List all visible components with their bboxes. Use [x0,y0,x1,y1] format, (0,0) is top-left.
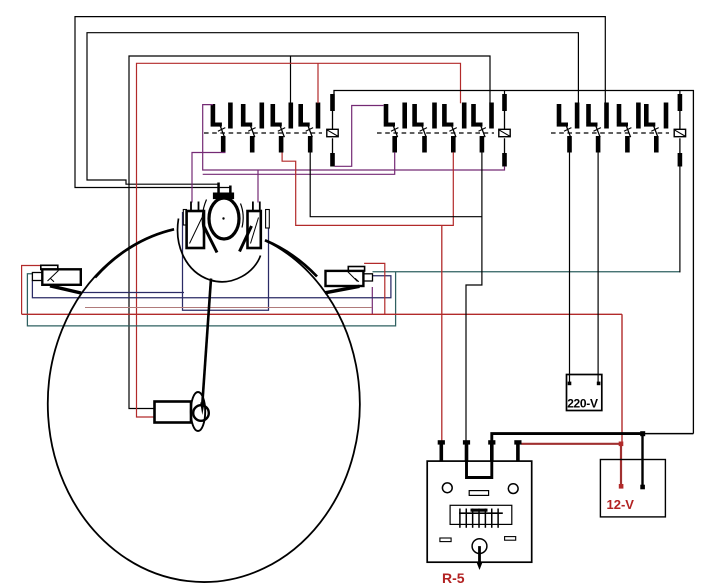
R-5 small window [469,491,488,496]
R-5 right eyelet [508,484,518,494]
pendulum rod [202,279,211,405]
wire navy left-plug to right-lever bottom bus [32,276,391,298]
wire red bus to 12-V [621,314,623,444]
right lever internal diagonal [348,272,358,282]
wire purple S1-L1-top long run to K2-bottom [203,105,505,170]
switch S3 pole 2 moving contact (lower bar) [596,136,601,153]
svg-text:12-V: 12-V [607,497,635,512]
switch S2 pole 4 moving contact (lower bar) [480,136,485,153]
switch S2 pole 2 fixed contact (I-bar) [432,103,437,129]
switch S1 pole 2 fixed contact (I-bar) [260,103,265,129]
motor housing bottom arc [178,219,261,282]
left lever pointer stroke [50,286,81,293]
relay/fuse K2 upper terminal bar [502,94,507,111]
wire black branch to bank S1 pole3-I [290,56,292,103]
switch S3 pole 3 actuator arm [626,125,631,137]
wire red into 12-V box [620,444,622,487]
switch S1 pole 1 moving contact (lower bar) [221,136,226,153]
R-5 left slot [440,538,451,542]
left brush holder diagonal [190,218,203,244]
switch S1 pole 2 fixed contact (L-bar) [241,104,246,123]
relay/fuse K1 lower lead [332,138,334,153]
switch bank S3 [551,94,686,167]
right brush pin A [252,202,254,212]
svg-text:220-V: 220-V [567,397,598,411]
wire purple S1-low1 to left brush pin [192,153,226,203]
motor cap pin 1 [217,183,220,193]
left lever internal diagonal [48,271,59,282]
wire black S3-low2 to 220-V [597,153,599,384]
wire black K3-bottom to teal line [679,167,681,273]
wire black S2-low4 to R-5 terminal 2 [466,153,482,441]
R-5 terminal 3 [490,444,494,461]
wire relay-top bus [334,91,693,434]
knob circle [193,405,209,421]
left lever top plate [41,265,58,269]
left lever tick [51,279,55,282]
switch S3 pole 2 fixed contact (I-bar) [604,103,609,129]
switch S2 pole 3 fixed contact (I-bar) [462,103,467,129]
wire navy lever-pointer link [81,292,184,294]
junction red at 12-V feed [619,442,624,447]
R-5 enclosure [427,461,532,562]
switch S2 pole 1 actuator arm [393,125,398,137]
switch S1 pole 4 moving contact (lower bar) [308,136,313,153]
switch S3 pole 1 actuator arm [566,125,571,137]
motor rotor ellipse [209,198,239,239]
right paren arc [241,204,244,228]
switch S3 pole 1 fixed contact (L-bar) [557,104,562,123]
wire black drop into 12-V box [641,434,643,487]
wire red loop to bank S2 pole3-I [137,63,461,417]
right lever top plate [348,267,364,272]
switch S3 pole 3 fixed contact (L-bar) [617,104,622,123]
wire red S1-low3 to S2-low3 link [282,152,453,225]
wire red branch to bank S1 pole4-I [317,63,319,103]
switch S1 pole 3 fixed contact (L-bar) [271,104,276,123]
relay/fuse K1 lower terminal bar [330,153,335,167]
switch S3 pole 1 fixed contact (I-bar) [575,103,580,129]
220-V supply [567,375,602,411]
wire bus drop to K2 [504,91,506,95]
switch S1 pole 3 moving contact (lower bar) [279,136,284,153]
switch S1 gang dashed link [204,132,322,134]
relay/fuse K2 upper lead [504,111,506,129]
switch S1 pole 1 actuator arm [220,125,225,137]
switch S2 gang dashed link [377,132,494,134]
wire black S3-low1 to 220-V [569,153,571,384]
R-5 terminal 2 [465,444,469,461]
junction black on thick bus [640,431,645,436]
left holder ear slot [183,210,186,226]
relay/fuse K2 body [499,129,510,136]
switch S2 pole 2 fixed contact (L-bar) [412,104,417,123]
switch S1 pole 2 actuator arm [250,125,255,137]
motor / distributor assembly [178,183,270,282]
steering wheel ellipse (broken at top) [48,229,360,582]
switch S3 pole 4 moving contact (lower bar) [654,136,659,153]
R-5 left eyelet [442,483,452,493]
switch S2 pole 3 actuator arm [451,125,456,137]
switch S2 pole 3 moving contact (lower bar) [451,136,456,153]
switch S2 pole 1 fixed contact (I-bar) [402,103,407,129]
left carbon brush stroke [204,226,218,253]
switch S3 pole 4 fixed contact (I-bar) [664,103,669,129]
switch S2 pole 4 fixed contact (L-bar) [471,104,476,123]
right brush pin B [259,202,261,212]
R-5 regulator unit [427,440,532,586]
wire purple K1-bottom to S2-L1-top [335,106,384,167]
switch S1 pole 3 actuator arm [280,125,285,137]
12-V battery [600,460,665,517]
left brush holder [187,211,204,248]
rotor center dot [222,217,224,219]
relay/fuse K3 lower lead [679,138,681,153]
R-5 shaft circle [472,539,487,554]
relay/fuse K1 upper lead [332,111,334,129]
wire black S1-low4 to S2-low4 link [310,153,482,217]
steering wheel upper-left heavy arc [95,229,174,277]
left paren arc [202,200,206,233]
switch S1 pole 2 moving contact (lower bar) [250,136,255,153]
motor cap pin 2 [229,186,232,193]
terminal red inside 12-V [619,484,624,489]
R-5 shaft stem [478,546,481,563]
wire purple drop to right brush pin [257,170,259,203]
right lever switch [325,267,373,293]
wire teal right-lever to far right [373,271,680,273]
R-5 right slot [505,537,516,541]
relay/fuse K3 upper terminal bar [678,94,683,111]
right holder ear slot [266,210,270,229]
switch S1 pole 4 fixed contact (L-bar) [298,104,303,123]
left lever plug [32,273,42,281]
rod arrow tip [200,403,204,416]
right lever pointer stroke [325,286,360,293]
R-5 element teeth [459,509,461,528]
wire black thin continuation to far-right riser [643,433,693,435]
right lever plug [363,274,372,281]
left brush pin B [198,202,200,212]
relay/fuse K2 lower terminal bar [502,153,507,167]
220-V terminal right [597,382,601,386]
knob egg ellipse [191,392,205,431]
wire black second loop to bank S3 pole1-I [87,33,578,193]
switch S1 pole 4 actuator arm [308,125,313,137]
relay/fuse K3 body [674,129,685,136]
switch S2 pole 2 actuator arm [422,125,427,137]
wire red bus drop to R-5 terminal 1 [441,225,443,440]
switch S3 pole 2 actuator arm [596,125,601,137]
switch S1 pole 3 fixed contact (I-bar) [289,103,294,129]
wire black third loop to bank S2 pole4-I [129,56,490,409]
switch S2 pole 4 actuator arm [481,125,486,137]
right lever body [326,271,364,286]
switch S1 pole 4 fixed contact (I-bar) [316,103,321,129]
R-5 stem arrow [477,563,483,571]
R-5 terminal 4 [516,444,520,461]
left lever body [42,269,81,285]
12-V box [600,460,665,517]
switch S2 pole 2 moving contact (lower bar) [422,136,427,153]
switch S1 pole 1 fixed contact (L-bar) [211,104,216,123]
wire bus drop to K3 [679,91,681,95]
relay/fuse K1 upper terminal bar [330,94,335,111]
relay/fuse K2 lower lead [504,138,506,153]
right brush holder [248,211,261,248]
R-5 terminal 1 [440,444,444,461]
wire teal left-plug lower bus [27,272,395,326]
motor cap bar [213,193,234,200]
terminal black inside 12-V [640,485,645,490]
switch S3 pole 3 fixed contact (I-bar) [636,103,641,129]
knob coil box [155,402,192,423]
switch bank S1 [204,94,338,167]
left lever switch [32,265,81,293]
wire red bus to left lever [22,266,41,315]
R-5 element frame [450,505,512,524]
relay/fuse K3 upper lead [679,111,681,129]
switch S3 pole 4 fixed contact (L-bar) [644,104,649,123]
wire red main bus [22,313,622,315]
220-V terminal left [568,382,572,386]
wire navy brush frame loop [183,212,269,310]
svg-text:R-5: R-5 [442,570,465,586]
right brush holder diagonal [251,218,259,244]
220-V box [567,375,602,411]
switch S2 pole 4 fixed contact (I-bar) [489,103,494,129]
switch S3 pole 3 moving contact (lower bar) [625,136,630,153]
right carbon brush stroke [240,226,252,252]
switch S2 pole 1 fixed contact (L-bar) [384,104,389,123]
R-5 element bar [459,512,503,514]
right lever tick [355,278,359,282]
wire black thick R-5 terminal3 bus [492,434,643,441]
switch S3 pole 1 moving contact (lower bar) [567,136,572,153]
switch S2 pole 1 moving contact (lower bar) [392,136,397,153]
wire faint red lower run [85,307,372,309]
switch S3 pole 2 fixed contact (L-bar) [586,104,591,123]
wire purple S2-low1 run [203,152,395,174]
switch S3 gang dashed link [551,132,669,134]
wire purple right-lever drop [371,287,373,314]
wire red R-5 terminal4 to 12-V [521,443,622,445]
wire red right-lever feed [364,263,385,314]
switch S2 pole 3 fixed contact (L-bar) [442,104,447,123]
relay/fuse K1 body [327,129,338,136]
switch S1 pole 1 fixed contact (I-bar) [228,103,233,129]
wire black outer loop to bank S3 pole2-I [75,17,605,193]
switch bank S2 [377,94,510,167]
R-5 element slider [471,509,488,512]
left brush pin A [190,202,192,212]
R-5 internal U link [467,461,492,478]
relay/fuse K3 lower terminal bar [678,153,683,167]
switch S3 pole 4 actuator arm [653,125,658,137]
steering wheel upper-right heavy arc [265,240,317,276]
